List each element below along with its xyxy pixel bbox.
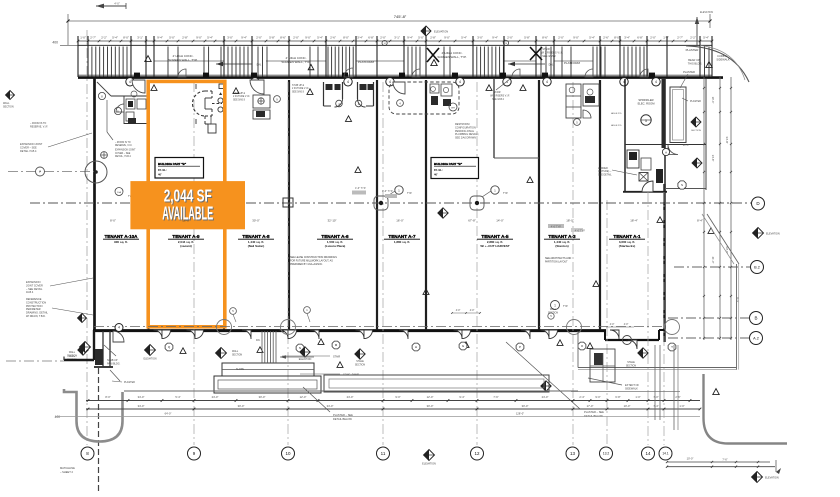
sidewalk right lower [571,391,680,393]
left stub centerline [8,171,94,173]
svg-text:4’-6” TYP.: 4’-6” TYP. [355,187,366,190]
svg-text:STAGE: STAGE [627,361,635,364]
svg-text:2’-7”: 2’-7” [677,35,683,39]
gridline 13.2 vertical [606,200,608,445]
svg-text:SIDEWALK: SIDEWALK [716,57,730,61]
restroom pending note [455,123,479,140]
svg-text:14’-8”: 14’-8” [711,155,715,162]
svg-text:9’-4”: 9’-4” [459,395,464,399]
grid bubble 13 [566,447,579,460]
elevation marker right [753,228,780,239]
svg-text:8’-6”: 8’-6” [542,35,548,39]
marker above corner [78,314,87,323]
curb curve top right [686,45,749,82]
fixture cluster A-8 [250,80,280,119]
svg-text:34’-8”: 34’-8” [725,136,729,143]
bottom right dimension [666,457,781,474]
svg-text:A: A [665,150,667,154]
svg-text:7’-4”: 7’-4” [653,404,658,408]
plumbing rough-in A-9 [193,84,225,133]
gridline 11 vertical [382,82,384,445]
right vertical dimension rails [703,77,740,340]
restroom cluster A-10A [97,80,148,140]
grid bubble 10 [282,447,295,460]
svg-text:24’-0”: 24’-0” [347,395,354,399]
svg-text:4’-6” TYP.: 4’-6” TYP. [575,230,586,233]
svg-text:A.2: A.2 [753,336,759,340]
svg-text:ELEVATION: ELEVATION [299,358,312,361]
svg-text:5: 5 [645,119,647,123]
tiny circle ref 1 [382,40,387,45]
column at grid 8 [85,161,107,183]
svg-text:4: 4 [655,80,657,84]
svg-text:BUILDING PART “B”: BUILDING PART “B” [434,162,463,166]
svg-text:DN.: DN. [257,62,262,66]
demising wall A8/A6 [288,80,290,330]
svg-text:9’-0”: 9’-0” [395,395,400,399]
svg-text:2’-0”: 2’-0” [293,35,299,39]
cross mark 1 [427,48,439,62]
sill note [107,359,121,365]
svg-text:24’-0”: 24’-0” [542,395,549,399]
svg-text:2’-0”: 2’-0” [380,35,386,39]
svg-text:2’-2”: 2’-2” [101,35,107,39]
svg-text:5’-8”: 5’-8” [524,35,530,39]
ladder note [598,167,637,176]
svg-text:67’-8”: 67’-8” [468,219,475,223]
svg-text:1’-0”: 1’-0” [663,35,669,39]
centerline A2 [668,337,749,339]
svg-text:H: H [415,345,417,349]
stair label [282,355,340,358]
svg-text:4/A5.4: 4/A5.4 [26,291,34,294]
demising wall A6/A7 [376,80,378,330]
left vestibule recess [64,330,124,381]
svg-text:SECTION: SECTION [355,364,366,366]
tenant entry doors [154,330,620,339]
svg-text:4: 4 [118,326,120,330]
svg-text:4: 4 [389,80,391,84]
svg-text:10’-0”: 10’-0” [624,404,631,408]
available banner [130,181,245,229]
bear up note [688,58,703,65]
grid bubble B [750,312,763,325]
svg-text:SCREEN WALL, TYP.: SCREEN WALL, TYP. [437,55,466,59]
svg-text:1’-0”: 1’-0” [679,404,684,408]
svg-text:14’-0”: 14’-0” [496,219,503,223]
storefront head line [78,44,712,46]
svg-text:4’-6” TYP.: 4’-6” TYP. [382,190,393,193]
svg-text:SECTION: SECTION [3,105,14,108]
aisle texts [611,112,622,127]
wall section labels [67,308,637,367]
reference note lower [26,298,93,318]
curb note right [706,54,730,68]
right exterior wall [659,184,665,342]
expansion note inner [115,142,136,158]
wall keynote bubbles [126,78,660,86]
demising wall A5/A3 [538,80,540,330]
svg-text:6’-8”: 6’-8” [637,35,643,39]
grid bubble 11 [377,447,390,460]
svg-text:30’-0”: 30’-0” [238,404,245,408]
svg-text:6’-8”: 6’-8” [615,395,620,399]
platform label right [680,70,695,88]
svg-text:9’-0”: 9’-0” [444,35,450,39]
fixture cluster A-6 [566,84,599,125]
svg-text:4’-0”: 4’-0” [610,324,615,326]
matchline note [60,466,75,474]
dn arrow 2 [508,62,554,67]
svg-text:3’-0”: 3’-0” [477,35,483,39]
svg-text:14.1: 14.1 [662,452,668,456]
svg-text:FF. EL:: FF. EL: [434,168,443,172]
ladder box [639,173,648,182]
main storefront wall [78,76,723,79]
svg-text:STAGE: STAGE [356,360,364,363]
svg-text:TYP.: TYP. [563,305,568,308]
svg-text:B.2: B.2 [754,265,760,269]
screen wall note 2 [431,51,467,66]
grid bubble B2 [751,261,764,274]
svg-text:RESERVE, V.I.F.: RESERVE, V.I.F. [115,145,133,147]
svg-text:30’-0”: 30’-0” [259,395,266,399]
svg-text:2’-6”: 2’-6” [603,35,609,39]
svg-text:4’-0”: 4’-0” [456,310,461,312]
svg-text:N: N [299,346,301,350]
svg-text:2’-7”: 2’-7” [90,35,96,39]
svg-text:ELEC. ROOM: ELEC. ROOM [638,102,656,106]
svg-text:2’-6”: 2’-6” [330,35,336,39]
cross mark 2 [530,47,542,60]
svg-text:10: 10 [285,451,291,456]
svg-text:FF. EL:: FF. EL: [158,168,167,172]
dimension text row [80,35,709,39]
storefront door swings [178,68,648,77]
svg-text:STAIR: STAIR [494,91,501,94]
svg-text:(Starbucks): (Starbucks) [619,244,636,248]
gridline 14.1 vertical [663,192,665,445]
svg-text:P: P [519,345,521,349]
grid bubble 13.2 [600,447,613,460]
svg-text:PLATFORM: PLATFORM [564,61,581,65]
door tag 5 [230,308,237,322]
svg-text:17’-0”: 17’-0” [587,404,594,408]
svg-text:(Luxura Plaza): (Luxura Plaza) [325,244,346,248]
svg-text:STUB UP &: STUB UP & [292,85,305,87]
svg-text:4’-0”: 4’-0” [470,310,475,312]
svg-text:9’-4”: 9’-4” [492,35,498,39]
svg-text:18’-4”: 18’-4” [630,219,637,223]
grid bubble 14 [642,447,655,460]
svg-text:DETAIL BELOW: DETAIL BELOW [333,417,352,421]
gridline 10 vertical [287,82,289,445]
svg-text:BEAR UP: BEAR UP [688,58,700,62]
svg-text:12: 12 [474,451,480,456]
elevation marker bottom right [752,472,779,483]
svg-text:7’-6”: 7’-6” [493,395,498,399]
svg-text:19’-4”: 19’-4” [711,97,715,104]
svg-text:TENANT A-10A: TENANT A-10A [104,234,138,239]
svg-text:(vacant): (vacant) [180,244,192,248]
svg-text:– SHEET 2: – SHEET 2 [60,470,73,474]
svg-text:13: 13 [570,451,576,456]
svg-text:10’-0”: 10’-0” [687,457,694,461]
wall section tag left [67,342,91,358]
grid arrow 14.1 top [695,11,714,45]
tag circle A-1 recess [623,336,632,345]
grid bubble A2 [750,332,763,345]
wall section diamond A-8 [216,348,243,359]
svg-text:4’-0”: 4’-0” [624,324,629,326]
service fixtures [627,150,651,170]
svg-text:DN.: DN. [549,62,554,66]
svg-text:34’-0”: 34’-0” [138,404,145,408]
elevation marker top [421,26,448,36]
svg-text:8’-0”: 8’-0” [343,35,349,39]
column bubble left [36,167,45,176]
matchline vertical [98,368,100,491]
svg-text:CURB &: CURB & [717,54,727,58]
svg-text:RESERVE, V.I.F.: RESERVE, V.I.F. [30,125,48,128]
svg-text:TENANT A-8: TENANT A-8 [242,234,270,239]
grid bubble 12 [471,447,484,460]
svg-text:PLASTER: PLASTER [686,48,699,52]
svg-text:TYP.: TYP. [407,192,412,195]
svg-text:8’-0”: 8’-0” [105,395,110,399]
svg-text:W/ +–OUT HARVEST: W/ +–OUT HARVEST [480,244,510,248]
svg-text:14: 14 [384,43,386,45]
entry door A1 [628,340,637,349]
svg-text:3’-0”: 3’-0” [227,35,233,39]
svg-text:– ROOM IS TO: – ROOM IS TO [115,142,131,144]
gridline 9 vertical [193,82,195,445]
screen wall note 1 [145,54,198,62]
svg-text:PANI BLDG.: PANI BLDG. [107,362,121,365]
svg-text:3’-1”: 3’-1” [137,35,143,39]
svg-text:(Stanton): (Stanton) [555,244,568,248]
svg-text:2’-0”: 2’-0” [558,35,564,39]
sprinkler keynote bubble [641,115,651,125]
svg-text:2’-4”: 2’-4” [579,395,584,399]
lease note mid [290,256,337,266]
svg-text:32’-10”: 32’-10” [328,219,337,223]
centerline B2 [674,266,750,268]
svg-text:8’-0”: 8’-0” [110,219,116,223]
svg-text:2’-8”: 2’-8” [182,35,188,39]
svg-text:PLASTER: PLASTER [124,381,135,384]
svg-text:TENANT A-5: TENANT A-5 [481,234,509,239]
extent of sidewalk note [588,378,719,395]
svg-text:SCREEN WALL, TYP.: SCREEN WALL, TYP. [168,58,197,62]
svg-text:3’-4”: 3’-4” [357,35,363,39]
svg-text:ELEVATION: ELEVATION [766,233,780,236]
svg-text:5’-8”: 5’-8” [269,35,275,39]
centerline B [668,317,749,319]
grid bubble D [752,197,765,210]
storefront wall face [78,74,712,76]
svg-text:5’-4”: 5’-4” [112,35,118,39]
main horizontal centerline [30,202,751,204]
svg-text:5’-4”: 5’-4” [703,35,709,39]
bottom wall centerline [94,326,665,328]
svg-text:W/ 2 RISERS V.I.F.: W/ 2 RISERS V.I.F. [490,95,510,97]
svg-text:THIS BLDG.: THIS BLDG. [688,61,703,65]
svg-text:8’-0”: 8’-0” [614,35,620,39]
svg-text:PLASTER – SEE: PLASTER – SEE [584,410,604,414]
svg-text:SECTION: SECTION [232,354,243,356]
svg-text:10A: 10A [117,191,121,194]
svg-text:ELEVATION: ELEVATION [143,358,156,361]
room finish tags [165,341,676,352]
stage ramp detail [214,331,321,393]
svg-text:AISLE P.D.: AISLE P.D. [611,124,622,127]
svg-text:9’-0”: 9’-0” [573,35,579,39]
svg-text:1’-0”: 1’-0” [80,35,86,39]
svg-text:PLATFORM: PLATFORM [358,60,375,64]
future covered note [0,0,1,1]
svg-text:SLOPE: SLOPE [236,368,244,371]
conc ramp label [300,373,359,376]
stub up note A-6 [292,85,309,93]
svg-text:9’-0”: 9’-0” [305,35,311,39]
svg-text:5’-4”: 5’-4” [461,35,467,39]
svg-text:ELEVATION: ELEVATION [422,463,436,466]
gridline 8 vertical [86,30,88,445]
left wall keynote bubble [115,324,123,332]
svg-text:11: 11 [381,451,386,456]
svg-text:8’-6”: 8’-6” [280,35,286,39]
stub up note A-8 [233,93,250,101]
svg-text:7’-0”: 7’-0” [653,395,658,399]
svg-text:DETAIL BELOW: DETAIL BELOW [584,414,603,418]
svg-text:STAIR: STAIR [333,355,340,358]
junction box grid10 [283,198,293,207]
gridline 14 vertical [647,192,649,445]
grid bubble 8 [81,447,94,460]
svg-text:30’-0”: 30’-0” [427,404,434,408]
svg-text:128’-0”: 128’-0” [516,412,524,416]
svg-text:4: 4 [129,80,131,84]
svg-text:WH: WH [451,107,455,109]
svg-text:W/ DRAIN, T.B.D.: W/ DRAIN, T.B.D. [26,315,46,318]
demising wall A7/A5 [425,80,427,330]
svg-text:40’: 40’ [158,173,162,177]
lease note right [545,257,571,263]
svg-text:9’-4”: 9’-4” [241,35,247,39]
service room door 2 [668,145,678,155]
svg-text:(Nail Salon): (Nail Salon) [248,244,265,248]
bottom wall recess [605,330,659,340]
available suite outline [148,81,225,326]
elevation datum 400 left [52,41,78,46]
svg-text:9’-0”: 9’-0” [595,395,600,399]
keynote mid texts [352,187,397,198]
plaster label shaft [682,98,701,103]
svg-text:5’-0”: 5’-0” [418,35,424,39]
gridline 13 vertical [572,82,574,445]
plaster detail leader 2 [506,342,604,418]
svg-text:AISLE P.D.: AISLE P.D. [611,112,622,115]
svg-text:18’-0”: 18’-0” [566,219,573,223]
svg-text:30’-0”: 30’-0” [252,219,259,223]
svg-text:1,880 sq. ft.: 1,880 sq. ft. [394,240,411,244]
svg-text:64’-0”: 64’-0” [165,412,172,416]
grid bubble 9 [188,447,201,460]
svg-text:TENANT A-1: TENANT A-1 [613,234,641,239]
restroom stalls A-6 [324,82,374,121]
tag bubbles A-3 [548,301,569,320]
svg-text:WALL: WALL [69,351,76,354]
svg-text:400: 400 [52,41,58,45]
svg-text:1’-0”: 1’-0” [635,395,640,399]
svg-text:BUILDING PART “B”: BUILDING PART “B” [158,162,187,166]
svg-text:TYP.: TYP. [503,192,508,195]
svg-text:T: T [671,345,673,349]
svg-text:COVER – SEE: COVER – SEE [115,153,131,155]
svg-text:14: 14 [645,451,651,456]
sprinkler room label [638,98,656,106]
micro dims A-5 entry [451,310,481,314]
svg-text:16’-0”: 16’-0” [396,219,403,223]
reserve note left [30,122,48,128]
service room door [642,181,653,192]
storefront dimension string [77,40,714,43]
svg-text:TENANT A-9: TENANT A-9 [172,234,200,239]
svg-text:7’-6”: 7’-6” [722,458,727,462]
keynote bubble left wall [101,152,108,159]
column tag 10A [115,188,133,199]
platform label 3 [686,48,699,52]
datum 400 bottom [55,415,61,419]
svg-text:PLASTER: PLASTER [683,70,695,74]
svg-text:S: S [681,183,683,187]
platform label 1 [358,60,375,64]
svg-text:5’-0”: 5’-0” [169,35,175,39]
diamond right room 1 [691,117,701,132]
svg-text:SEE 2/A0 DRAWN: SEE 2/A0 DRAWN [455,137,476,140]
svg-text:4: 4 [546,80,548,84]
bottom exterior wall [93,329,606,332]
svg-text:SEE 3/A5.2: SEE 3/A5.2 [492,98,505,101]
building part B box mid [431,158,479,179]
svg-text:745’-8”: 745’-8” [394,14,407,19]
svg-text:21’-0”: 21’-0” [711,257,715,264]
svg-text:DETAIL, 7/A5.4: DETAIL, 7/A5.4 [115,155,132,158]
svg-text:5’-4”: 5’-4” [207,35,213,39]
svg-text:TENANT A-6: TENANT A-6 [321,234,349,239]
screen wall note 1b [281,56,313,70]
svg-text:SEE 5/A5.9: SEE 5/A5.9 [233,98,246,101]
dn arrow 1 [216,62,262,67]
tenant labels [103,234,645,248]
diamond right room 2 [692,158,702,168]
curb right inner [0,0,1,1]
stair callout mid [490,79,510,101]
svg-text:2’-2”: 2’-2” [690,35,696,39]
wall section note left [3,91,15,109]
svg-text:3’-1”: 3’-1” [394,35,400,39]
svg-text:12’-0”: 12’-0” [427,395,434,399]
canopy mid line [154,60,593,62]
svg-text:7: 7 [39,170,41,174]
dark stack [656,169,663,183]
svg-text:B: B [754,316,757,321]
svg-text:PREPARED BY GSA+ASSOC.: PREPARED BY GSA+ASSOC. [290,263,323,266]
svg-text:2’-0”: 2’-0” [256,35,262,39]
svg-text:4: 4 [459,80,461,84]
overall dimension line 745'-8" [66,14,711,45]
